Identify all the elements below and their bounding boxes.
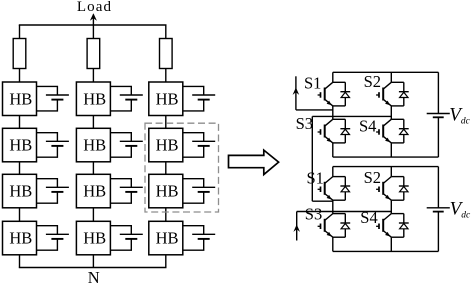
label Vdc cell 2 xyxy=(450,199,471,221)
dc-link capacitor of HB42 xyxy=(110,226,142,251)
wire phase 2 to N bus xyxy=(92,255,94,268)
svg-text:S3: S3 xyxy=(296,114,313,133)
dc-link capacitor of HB23 xyxy=(183,133,215,158)
svg-text:S1: S1 xyxy=(304,74,321,93)
svg-text:S1: S1 xyxy=(307,168,324,187)
dc-link capacitor of HB12 xyxy=(110,86,142,111)
svg-text:HB: HB xyxy=(9,229,32,248)
transistor S1 of cell 2 (IGBT) xyxy=(318,177,333,201)
antiparallel diode of S4 of cell 2 xyxy=(391,214,408,238)
svg-text:HB: HB xyxy=(83,182,106,201)
svg-text:S4: S4 xyxy=(359,117,376,136)
wire HB11 to HB21 xyxy=(19,116,21,129)
cell 2 left leg middle wire xyxy=(332,200,334,213)
wire inductor L3 to first HB xyxy=(165,69,167,83)
H-bridge cell block HB21 xyxy=(3,128,37,162)
svg-text:S2: S2 xyxy=(364,168,381,187)
top bus wire xyxy=(19,24,167,26)
cascade wire cell1 to cell2 xyxy=(312,116,391,201)
dc-link capacitor of HB31 xyxy=(37,179,69,204)
inductor L1 (series impedance rectangle) xyxy=(13,39,26,69)
dc-link capacitor of HB11 xyxy=(37,86,69,111)
transistor S2 of cell 2 (IGBT) xyxy=(376,177,391,201)
wire HB32 to HB42 xyxy=(92,208,94,222)
transistor S3 of cell 1 (IGBT) xyxy=(318,119,333,143)
wire HB22 to HB32 xyxy=(92,162,94,175)
wire bus to inductor L3 xyxy=(165,25,167,39)
wire inductor L1 to first HB xyxy=(19,69,21,83)
wire inductor L2 to first HB xyxy=(92,69,94,83)
H-bridge cell block HB11 xyxy=(3,82,37,116)
cell 1 inner leg middle wire xyxy=(390,106,392,119)
cell 2 positive rail wire xyxy=(333,166,439,168)
inductor L3 (series impedance rectangle) xyxy=(160,39,173,69)
antiparallel diode of S1 of cell 2 xyxy=(333,177,350,201)
antiparallel diode of S2 of cell 1 xyxy=(391,82,408,106)
svg-text:HB: HB xyxy=(156,89,179,108)
transistor S3 of cell 2 (IGBT) xyxy=(318,214,333,238)
H-bridge cell block HB41 xyxy=(3,221,37,255)
antiparallel diode of S2 of cell 2 xyxy=(391,177,408,201)
H-bridge cell block HB33 xyxy=(149,174,183,208)
antiparallel diode of S4 of cell 1 xyxy=(391,119,408,143)
svg-text:HB: HB xyxy=(156,136,179,155)
dc-link capacitor of HB13 xyxy=(183,86,215,111)
H-bridge cell block HB23 xyxy=(149,128,183,162)
wire HB31 to HB41 xyxy=(19,208,21,222)
transistor S4 of cell 1 (IGBT) xyxy=(376,119,391,143)
cell 1 left leg lower wire xyxy=(332,143,334,157)
dc-link capacitor of HB33 xyxy=(183,179,215,204)
wire HB23 to HB33 xyxy=(165,162,167,175)
transistor S1 of cell 1 (IGBT) xyxy=(318,82,333,106)
wire HB13 to HB23 xyxy=(165,116,167,129)
antiparallel diode of S3 of cell 1 xyxy=(333,119,350,143)
svg-text:HB: HB xyxy=(83,89,106,108)
label Vdc cell 1 xyxy=(449,105,470,127)
dc-link capacitor of HB22 xyxy=(110,133,142,158)
cell 1 output terminal wire with arrow xyxy=(293,76,333,110)
svg-text:S3: S3 xyxy=(305,205,322,224)
battery Vdc of cell 1 xyxy=(427,72,450,157)
dashed highlight box around HB cells xyxy=(145,123,219,212)
svg-text:S4: S4 xyxy=(360,208,377,227)
svg-text:dc: dc xyxy=(461,117,471,127)
cell 2 negative rail wire xyxy=(333,250,439,252)
cell 1 left leg middle wire xyxy=(332,106,334,119)
cell 1 inner leg lower wire xyxy=(390,143,392,157)
svg-text:S2: S2 xyxy=(364,72,381,91)
cell 2 left leg lower wire xyxy=(332,237,334,251)
svg-text:HB: HB xyxy=(83,136,106,155)
wire HB33 to HB43 xyxy=(165,208,167,222)
dc-link capacitor of HB41 xyxy=(37,226,69,251)
cell 1 negative rail wire xyxy=(333,156,439,158)
svg-text:HB: HB xyxy=(9,136,32,155)
H-bridge cell block HB43 xyxy=(149,221,183,255)
svg-text:Load: Load xyxy=(77,0,112,15)
wire bus to inductor L2 xyxy=(92,25,94,39)
block arrow (zoom indicator) xyxy=(229,150,279,174)
antiparallel diode of S1 of cell 1 xyxy=(333,82,350,106)
dc-link capacitor of HB43 xyxy=(183,226,215,251)
svg-text:HB: HB xyxy=(156,229,179,248)
svg-text:N: N xyxy=(88,268,100,284)
dc-link capacitor of HB32 xyxy=(110,179,142,204)
svg-text:HB: HB xyxy=(156,182,179,201)
cell 1 inner leg upper wire xyxy=(390,72,392,82)
cell 2 left leg upper wire xyxy=(332,167,334,177)
wire bus to inductor L1 xyxy=(19,25,21,39)
cell 2 output terminal wire with arrow xyxy=(293,212,391,241)
svg-text:HB: HB xyxy=(83,229,106,248)
inductor L2 (series impedance rectangle) xyxy=(87,39,100,69)
antiparallel diode of S3 of cell 2 xyxy=(333,214,350,238)
cell 2 inner leg lower wire xyxy=(390,237,392,251)
dc-link capacitor of HB21 xyxy=(37,133,69,158)
battery Vdc of cell 2 xyxy=(427,167,450,252)
H-bridge cell block HB32 xyxy=(76,174,110,208)
wire phase 3 to N bus xyxy=(165,255,167,268)
cell 1 positive rail wire xyxy=(333,71,439,73)
cell 2 inner leg middle wire xyxy=(390,200,392,213)
H-bridge cell block HB42 xyxy=(76,221,110,255)
wire HB12 to HB22 xyxy=(92,116,94,129)
H-bridge cell block HB12 xyxy=(76,82,110,116)
H-bridge cell block HB13 xyxy=(149,82,183,116)
cell 1 left leg upper wire xyxy=(332,72,334,82)
H-bridge cell block HB22 xyxy=(76,128,110,162)
wire HB21 to HB31 xyxy=(19,162,21,175)
N bus wire xyxy=(19,267,167,269)
wire phase 1 to N bus xyxy=(19,255,21,268)
svg-text:HB: HB xyxy=(9,182,32,201)
transistor S4 of cell 2 (IGBT) xyxy=(376,214,391,238)
transistor S2 of cell 1 (IGBT) xyxy=(376,82,391,106)
svg-text:HB: HB xyxy=(9,89,32,108)
cell 2 inner leg upper wire xyxy=(390,167,392,177)
load arrow xyxy=(90,13,97,25)
svg-text:dc: dc xyxy=(461,210,471,220)
H-bridge cell block HB31 xyxy=(3,174,37,208)
